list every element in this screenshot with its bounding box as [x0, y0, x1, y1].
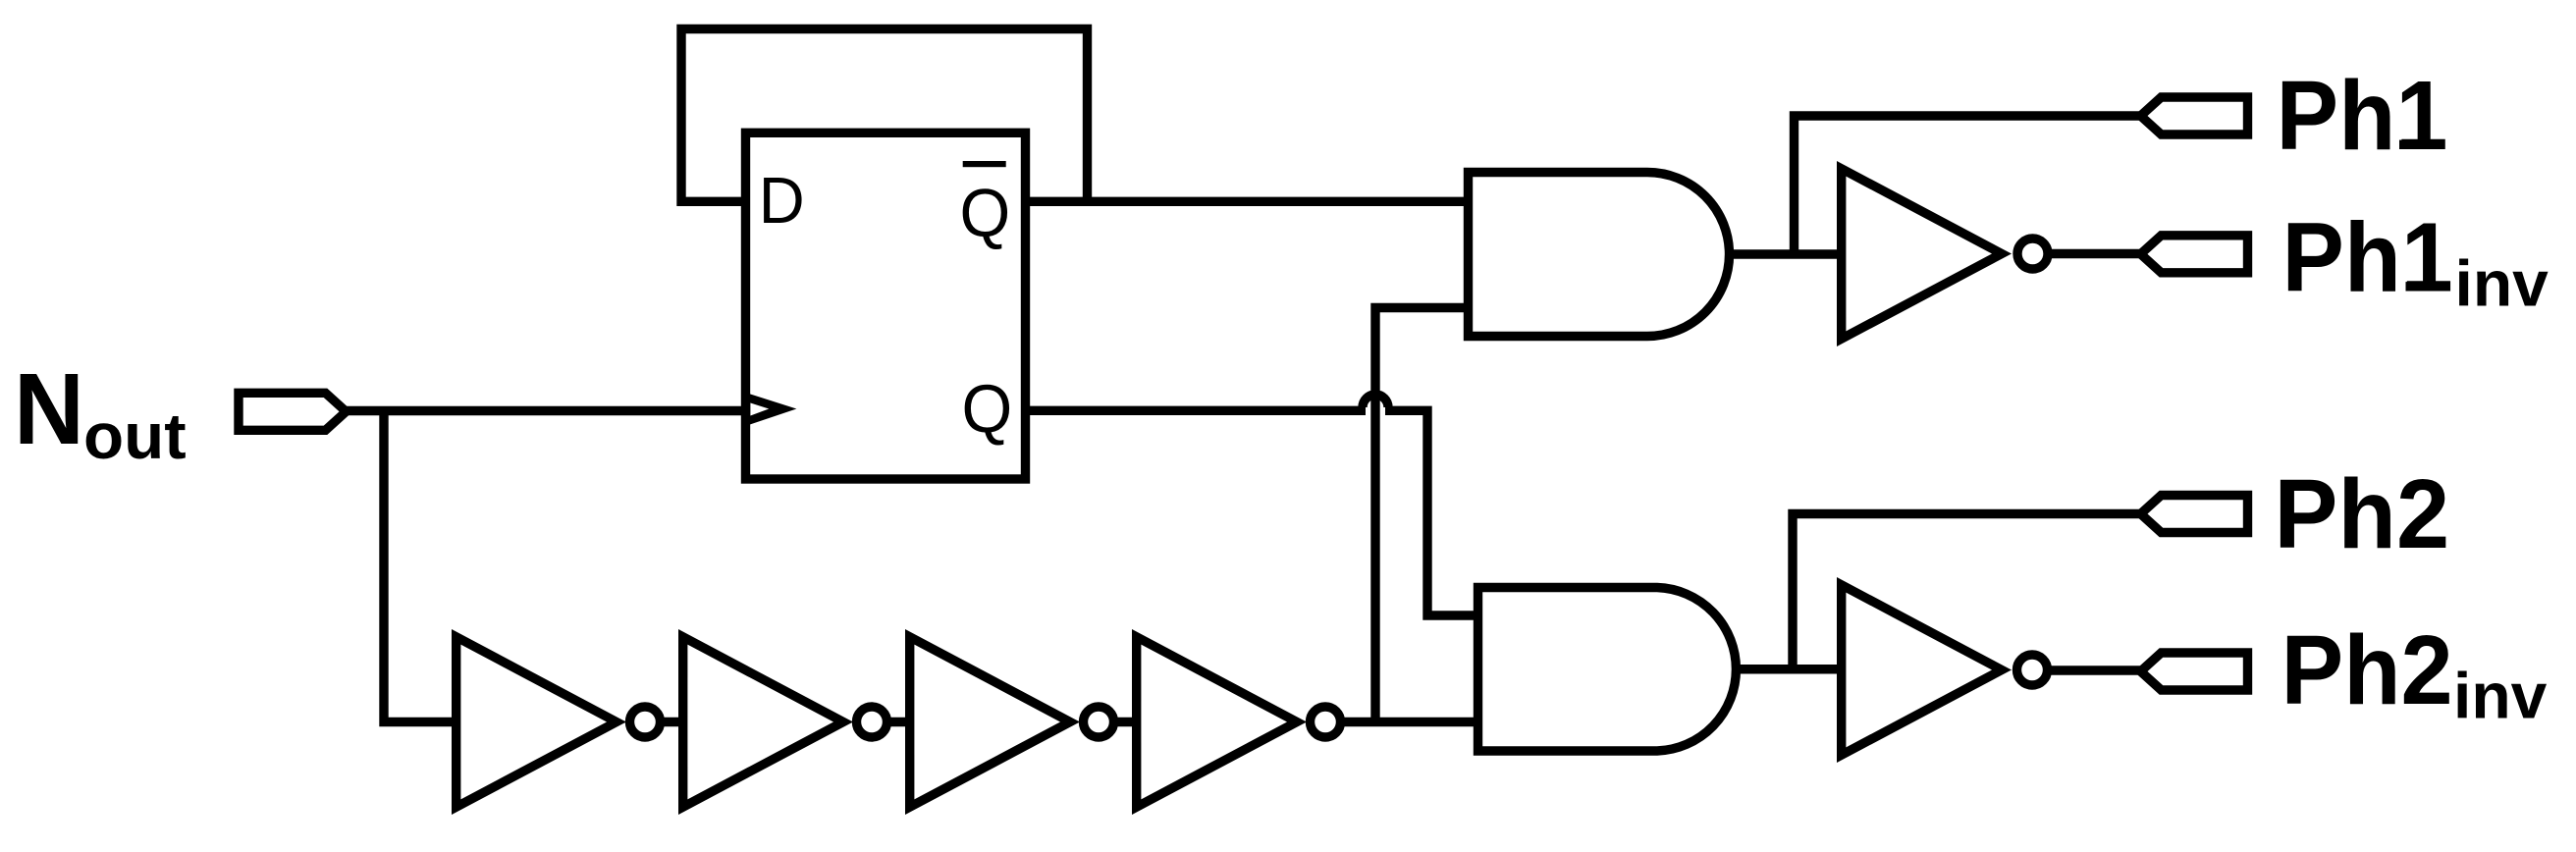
svg-text:Q: Q: [962, 371, 1013, 448]
bubble U4: [2017, 655, 2048, 685]
inverter chain X1: [452, 629, 626, 815]
wire D input and feedback loop from Qbar: [681, 29, 1088, 202]
inverter U4: [1837, 577, 2012, 763]
wire chain output up to AND U1 bottom input: [1375, 308, 1470, 722]
svg-text:Ph1: Ph1: [2277, 61, 2448, 171]
label Nout: [14, 352, 187, 472]
input terminal Nout: [239, 393, 347, 430]
output terminal Ph1inv: [2141, 236, 2248, 273]
svg-text:Ph2: Ph2: [2281, 614, 2453, 725]
inverter U3: [1837, 161, 2012, 346]
AND gate U1: [1469, 173, 1730, 337]
output terminal Ph2: [2141, 496, 2248, 533]
wire chain output to AND U2 bottom input: [1325, 718, 1479, 726]
wire inverter U4 output to Ph2inv: [2032, 666, 2141, 674]
bubble X3: [1084, 707, 1114, 737]
inverter chain X4: [1132, 629, 1307, 815]
wire AND U1 output: [1730, 249, 1844, 258]
wire hop over vertical: [1363, 395, 1388, 407]
svg-text:Ph1: Ph1: [2282, 202, 2453, 312]
AND gate U2: [1478, 588, 1737, 752]
serif foot of 1 in Ph1inv: [2406, 282, 2450, 291]
wire Nout clock input: [347, 406, 746, 415]
bubble X2: [857, 707, 887, 737]
svg-text:Ph2: Ph2: [2274, 459, 2449, 568]
svg-text:D: D: [759, 163, 805, 237]
flip-flop U5 box: [746, 133, 1026, 479]
svg-text:inv: inv: [2453, 660, 2548, 732]
bubble X4: [1311, 707, 1341, 737]
inverter chain X2: [678, 629, 853, 815]
label Ph1inv: [2282, 202, 2549, 319]
svg-text:Q: Q: [960, 175, 1011, 251]
wire inverter chain stage 2-3: [872, 718, 914, 726]
wire Nout branch down to inverter chain: [384, 411, 457, 722]
label Ph2inv: [2281, 614, 2548, 732]
wire inverter chain stage 1-2: [645, 718, 687, 726]
flip-flop clock wedge: [745, 393, 796, 426]
output terminal Ph2inv: [2141, 653, 2248, 690]
wire inverter chain stage 3-4: [1099, 718, 1141, 726]
svg-text:out: out: [83, 401, 187, 473]
wire Qbar to AND U1: [1026, 197, 1471, 206]
svg-text:N: N: [14, 352, 84, 465]
wire AND U2 output: [1739, 665, 1843, 673]
wire Q to AND U2 top input: [1385, 410, 1479, 615]
bubble X1: [630, 707, 661, 737]
svg-text:inv: inv: [2455, 247, 2549, 320]
serif foot of 1 in Ph1: [2399, 140, 2443, 149]
wire Q output segment: [1026, 406, 1367, 415]
inverter chain X3: [905, 629, 1080, 815]
output terminal Ph1: [2141, 97, 2248, 134]
wire branch to Ph1 terminal: [1795, 116, 2141, 254]
bubble U3: [2017, 239, 2048, 269]
wire branch to Ph2 terminal: [1793, 514, 2140, 669]
wire inverter U3 output to Ph1inv: [2033, 249, 2141, 258]
